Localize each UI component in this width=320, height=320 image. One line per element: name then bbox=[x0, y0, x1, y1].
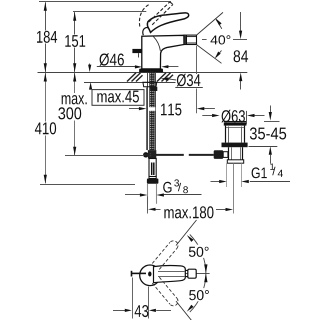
label max. bbox=[62, 95, 87, 104]
dim 35-45 bbox=[270, 106, 272, 113]
rod connector bbox=[223, 152, 228, 158]
dim Ø46 leader bbox=[97, 66, 136, 68]
max45 box bbox=[92, 90, 144, 106]
40deg dim stubs bbox=[202, 39, 207, 41]
body base plinth bbox=[140, 69, 163, 72]
label G1 bbox=[252, 167, 267, 178]
label / bbox=[178, 183, 181, 191]
top view pull rod dot bbox=[148, 272, 151, 277]
waste thread walls bbox=[226, 163, 228, 187]
dashed lever lower 50 bbox=[152, 277, 178, 306]
shank gap at 115 dim bbox=[149, 107, 156, 111]
label 84 bbox=[234, 50, 249, 62]
label max.45 bbox=[97, 91, 138, 103]
top view pop-up rod bbox=[132, 272, 146, 274]
lever handle raised (dashed) bbox=[139, 2, 173, 27]
50deg arc lower bbox=[190, 273, 206, 312]
aerator box bbox=[184, 35, 197, 44]
deck top line bbox=[38, 72, 248, 74]
dim max300 line bbox=[74, 73, 76, 155]
label 43 bbox=[135, 305, 149, 317]
top view lever knob bbox=[188, 269, 196, 278]
50deg ext line lower bbox=[176, 301, 196, 320]
label Ø34 bbox=[177, 74, 201, 87]
deck hatching right bbox=[157, 73, 173, 82]
lever handle solid bbox=[147, 13, 188, 33]
waste neck bottom band bbox=[227, 160, 243, 163]
waste axis line bbox=[233, 163, 235, 213]
label 4 bbox=[278, 170, 283, 177]
label 40° bbox=[211, 35, 231, 44]
shank tube walls bbox=[147, 72, 149, 150]
dim Ø63 bbox=[202, 115, 212, 117]
deck bottom line bbox=[84, 82, 176, 84]
label 50° bbox=[189, 290, 209, 300]
dim 410 line bbox=[45, 73, 47, 183]
waste threaded neck bbox=[228, 147, 230, 160]
dim max180 bbox=[147, 197, 149, 214]
dashed lever upper 50 bbox=[152, 241, 178, 270]
text backing rects bbox=[34, 31, 211, 302]
40deg arc upper with arrow bbox=[216, 20, 222, 29]
label 3 bbox=[174, 179, 179, 186]
label / bbox=[272, 167, 275, 175]
max300 bottom ref / rod ext line bbox=[65, 155, 144, 157]
dim Ø34 leader bbox=[175, 87, 203, 89]
label 1 bbox=[270, 164, 274, 170]
dim 84 bbox=[233, 39, 247, 41]
body inner curve bbox=[153, 36, 160, 51]
label 8 bbox=[183, 186, 188, 193]
hex adapter bbox=[149, 177, 156, 179]
dim 184 line bbox=[45, 2, 47, 72]
rod junction fitting bbox=[148, 150, 156, 158]
top view lever blade bbox=[154, 266, 186, 283]
horizontal pop-up rod bbox=[144, 154, 184, 156]
label Ø46 bbox=[100, 53, 124, 66]
pop-up waste body bbox=[225, 126, 227, 143]
40deg arc lower with arrow bbox=[216, 51, 222, 58]
dim G1 1/4 arrows bbox=[211, 181, 220, 183]
dim 115 ext lines bbox=[146, 88, 148, 151]
rod guide block bbox=[150, 87, 157, 91]
top view body circle bbox=[140, 265, 161, 286]
cartridge dome bbox=[143, 28, 151, 36]
top view lever neck bbox=[186, 270, 188, 276]
top view centerline axis bbox=[178, 273, 210, 275]
dim max45 arrows bbox=[89, 64, 91, 66]
label 35-45 bbox=[250, 127, 286, 139]
rod clamp knob bbox=[214, 150, 224, 159]
pop-up knob on body bbox=[132, 49, 141, 53]
label 151 bbox=[65, 35, 85, 47]
slotted connector bbox=[149, 159, 156, 177]
label 410 bbox=[35, 122, 56, 134]
label 50° bbox=[189, 247, 209, 257]
410 bottom ref line bbox=[40, 184, 135, 186]
rod ball end bbox=[143, 152, 148, 157]
mounting nut bbox=[143, 82, 157, 87]
reference line lever rest height 151 bbox=[73, 11, 146, 13]
faucet body bbox=[142, 35, 184, 69]
dim Ø46 right arrow bbox=[168, 66, 178, 68]
threaded shank core bbox=[149, 72, 154, 150]
pop-up waste flange top bbox=[224, 121, 246, 123]
dim G3/8 arrows bbox=[125, 194, 140, 196]
pop-up waste flange band bbox=[224, 122, 247, 125]
50deg arc upper bbox=[190, 235, 206, 274]
label G bbox=[163, 182, 171, 193]
label max.180 bbox=[164, 206, 213, 218]
reference line top (lever max height 184) bbox=[39, 1, 171, 3]
label 115 bbox=[161, 104, 181, 116]
pop-up waste collar nut bbox=[222, 143, 248, 148]
dim 43 bbox=[132, 278, 134, 319]
50deg ext line upper bbox=[176, 220, 197, 246]
dim 115 arrows bbox=[129, 108, 140, 110]
supply pipe bbox=[147, 184, 149, 204]
label Ø63 bbox=[221, 110, 245, 123]
label 300 bbox=[58, 107, 81, 119]
deck hatching left bbox=[127, 73, 143, 82]
dim 151 line bbox=[74, 12, 76, 72]
40deg spray legs bbox=[197, 12, 224, 35]
label 184 bbox=[37, 31, 57, 43]
